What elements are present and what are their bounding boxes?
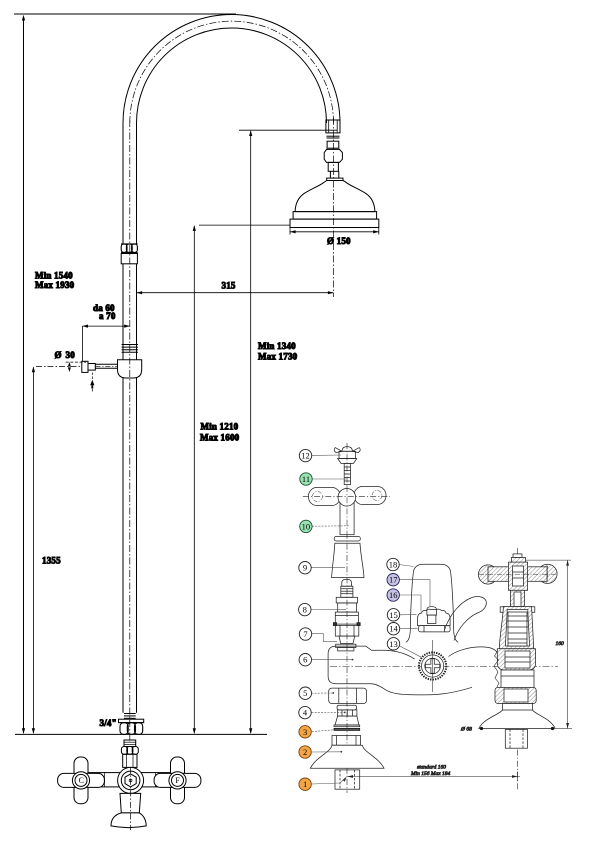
- riser pipe centerline: [129, 120, 131, 742]
- section handle hub: [508, 562, 527, 590]
- svg-text:3: 3: [303, 727, 307, 737]
- numbered circles: [299, 449, 400, 790]
- svg-text:F: F: [175, 776, 180, 785]
- svg-text:Max 1600: Max 1600: [200, 433, 240, 443]
- section stem: [510, 590, 524, 606]
- riser pipe middle segment: [122, 264, 124, 360]
- dimension Min 1210 Max 1600: [193, 226, 195, 733]
- top reference line: [14, 13, 236, 15]
- svg-text:Min 156 Max 184: Min 156 Max 184: [410, 770, 451, 777]
- hex nut part 5: [329, 688, 367, 703]
- riser coupling nut: [121, 244, 138, 253]
- bottom connection nut: [120, 723, 143, 735]
- svg-text:160: 160: [556, 641, 565, 647]
- svg-text:30: 30: [66, 350, 76, 360]
- diameter 68 dots: [480, 727, 483, 730]
- svg-text:Ø 68: Ø 68: [460, 727, 472, 733]
- ball joint: [324, 149, 342, 162]
- bottom collar: [119, 719, 144, 723]
- section shroud lip: [500, 607, 506, 613]
- mini dimension arrows 30: [68, 362, 71, 367]
- extension line from head rim: [199, 224, 290, 226]
- dimension 315: [137, 292, 334, 294]
- collar ring part 14: [419, 626, 451, 632]
- dimension head diameter 150: [289, 228, 291, 235]
- gooseneck centerline: [130, 21, 334, 123]
- svg-text:a 70: a 70: [99, 311, 116, 321]
- shower head band: [293, 212, 377, 220]
- section flange: [479, 704, 556, 729]
- faucet bridge body part 6: [328, 646, 558, 695]
- overall height dimension line Min 1540 Max 1930: [23, 19, 25, 733]
- swivel lower block: [328, 162, 338, 171]
- wing screw part 12: [334, 447, 360, 464]
- section handle right ball: [538, 564, 557, 583]
- svg-text:Max 1930: Max 1930: [35, 280, 75, 290]
- svg-text:315: 315: [222, 281, 236, 291]
- wall union flange: [82, 361, 88, 372]
- svg-text:Max 1730: Max 1730: [258, 352, 298, 362]
- riser pipe lower segment: [122, 378, 124, 713]
- washer part 3: [334, 728, 360, 730]
- faucet central body: [118, 767, 144, 793]
- svg-text:6: 6: [303, 655, 307, 665]
- svg-text:1355: 1355: [42, 556, 61, 566]
- head centerline: [333, 118, 335, 297]
- gooseneck arc inner: [137, 28, 327, 123]
- right handle cross: [154, 757, 201, 804]
- dimension Min 1340 Max 1730: [250, 131, 252, 733]
- section body column: [501, 670, 534, 687]
- riser thread lines above tee: [122, 344, 138, 346]
- dimension 160 right: [526, 559, 571, 561]
- svg-text:2: 2: [303, 747, 307, 757]
- mounting plane line: [15, 733, 267, 735]
- svg-text:16: 16: [389, 590, 398, 600]
- riser bottom threads: [124, 713, 136, 715]
- svg-text:5: 5: [303, 688, 307, 698]
- section handle arms: [488, 567, 547, 582]
- svg-text:1: 1: [303, 779, 307, 789]
- right leg nut at gooseneck end: [326, 120, 340, 133]
- tee junction body: [118, 360, 142, 378]
- section cartridge interior: [508, 612, 527, 646]
- svg-text:12: 12: [301, 451, 310, 461]
- wall union block: [88, 364, 95, 371]
- svg-text:9: 9: [303, 563, 307, 573]
- faucet inlet nut: [121, 747, 138, 755]
- shower head dome: [295, 181, 375, 212]
- gooseneck arc outer: [123, 14, 340, 123]
- dimension 1355 vertical line: [32, 367, 34, 733]
- svg-text:Min 1540: Min 1540: [35, 271, 73, 281]
- svg-text:8: 8: [303, 605, 307, 615]
- svg-text:Ø: Ø: [55, 350, 62, 360]
- faucet neck: [123, 754, 137, 767]
- shower head rim plate: [290, 219, 379, 227]
- section nut: [495, 687, 536, 703]
- left handle cross: [58, 757, 105, 804]
- wall supply arm: [95, 363, 117, 365]
- svg-text:Min 1210: Min 1210: [201, 422, 239, 432]
- diverter dome part 18: [406, 564, 458, 642]
- faucet spout bell: [111, 813, 146, 828]
- bell shroud part 9: [332, 543, 364, 577]
- threaded tail part 1: [335, 770, 360, 789]
- svg-text:18: 18: [389, 560, 398, 570]
- svg-text:15: 15: [389, 610, 398, 620]
- cartridge part 8: [333, 579, 360, 643]
- bell flange part 2: [310, 736, 384, 769]
- diverter rod part 16: [427, 615, 436, 623]
- exploded column axis: [346, 443, 348, 793]
- cross handle part 10: [303, 486, 390, 541]
- faucet spout neck: [120, 793, 141, 813]
- svg-text:standard 160: standard 160: [417, 765, 446, 771]
- section axis: [517, 548, 519, 790]
- faucet arms: [89, 773, 174, 787]
- shower head neck: [329, 171, 331, 178]
- union top dashed extension: [66, 361, 86, 363]
- washer part 7: [336, 644, 356, 651]
- dimension da 60 a 70: [82, 325, 129, 327]
- svg-text:C: C: [79, 776, 84, 785]
- section valve housing: [497, 649, 535, 670]
- section top screw: [513, 554, 522, 558]
- section tail: [505, 729, 527, 748]
- svg-text:Ø 150: Ø 150: [327, 236, 351, 246]
- section handle left ball: [478, 565, 497, 584]
- cone part 4: [334, 705, 360, 727]
- diverter rod cap part 17: [427, 607, 437, 616]
- section break zigzag: [494, 651, 499, 687]
- bottom centre distance dimension: [348, 765, 521, 782]
- svg-text:3/4": 3/4": [100, 718, 117, 728]
- svg-text:10: 10: [302, 521, 311, 531]
- faucet inlet threads: [124, 740, 136, 747]
- svg-text:17: 17: [389, 575, 398, 585]
- extension line from head connector: [239, 129, 337, 131]
- leader lines: [311, 455, 430, 784]
- svg-text:Min 1340: Min 1340: [258, 341, 296, 351]
- gap washer lines: [327, 135, 340, 137]
- swivel upper block: [327, 141, 339, 148]
- svg-text:14: 14: [389, 624, 398, 634]
- threaded stem part 11: [344, 463, 350, 484]
- diverter lever: [445, 597, 487, 641]
- riser pipe upper segment: [122, 123, 124, 244]
- inlet leader arrow below union: [91, 373, 93, 381]
- svg-text:7: 7: [303, 629, 307, 639]
- section shroud bell: [499, 607, 533, 649]
- shower head collar: [327, 178, 343, 180]
- svg-text:13: 13: [389, 639, 398, 649]
- section column assembled view: [460, 548, 572, 790]
- center boss with cross: [419, 640, 446, 692]
- union centerline dash-dot: [36, 365, 82, 367]
- scalloped collar part 15: [418, 609, 451, 625]
- svg-text:11: 11: [302, 474, 310, 484]
